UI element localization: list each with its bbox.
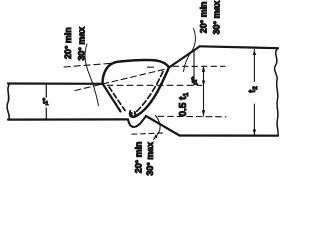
dashed line no.2 (thin plate top level)	[107, 84, 202, 86]
dim line t1 (from taper to thin-plate-top level)	[193, 51, 195, 86]
right plate bottom edge	[180, 134, 279, 136]
top-left angle label	[63, 27, 87, 61]
right plate top edge	[200, 46, 279, 48]
right plate break line	[275, 48, 279, 136]
dashed bevel V left	[109, 87, 125, 111]
left plate break line	[7, 84, 9, 120]
svg-text:20° min: 20° min	[63, 27, 73, 59]
weld root bulge	[128, 116, 146, 127]
dim line t2	[253, 50, 255, 135]
top-left leader arc	[85, 44, 98, 106]
weld solid V left side	[103, 84, 121, 112]
top-right leader arc	[184, 29, 196, 72]
right plate top taper	[169, 47, 200, 68]
weld root inner hook	[130, 111, 136, 117]
svg-text:30° max: 30° max	[145, 142, 155, 176]
dashed chord	[75, 69, 168, 91]
left plate top edge	[8, 82, 103, 85]
svg-text:t1: t1	[191, 75, 198, 87]
svg-text:20° min: 20° min	[198, 2, 208, 34]
svg-text:t2: t2	[247, 86, 259, 93]
dashed line no.1 (crown level right)	[148, 66, 154, 68]
right plate bottom taper	[146, 116, 180, 136]
dim line 0.5t1	[203, 66, 205, 116]
svg-text:t1: t1	[43, 96, 50, 106]
dashed line above crown left	[64, 63, 113, 67]
t1 dimension line	[45, 85, 47, 119]
short dashed line at root level	[132, 133, 163, 134]
left plate bottom edge	[8, 118, 128, 120]
svg-text:30° max: 30° max	[211, 1, 221, 35]
bottom angle label	[133, 142, 155, 176]
svg-text:0.5 t1: 0.5 t1	[178, 92, 190, 116]
dashed line no.3 (thin plate bottom level)	[158, 115, 226, 118]
dashed bevel V right	[135, 72, 164, 114]
bottom leader arc	[154, 116, 161, 140]
top-right angle label	[198, 1, 221, 35]
weld crown	[103, 60, 170, 84]
weld right edge	[131, 68, 169, 117]
svg-text:20° min: 20° min	[133, 142, 143, 174]
